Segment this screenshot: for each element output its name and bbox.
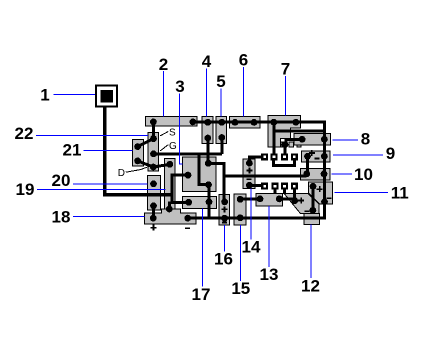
pads center block — [185, 160, 212, 188]
svg-text:13: 13 — [260, 265, 279, 284]
leader 3 — [179, 94, 182, 165]
cap14 plus mark — [247, 167, 253, 173]
pad12 plus mark — [298, 198, 304, 204]
pads strip item 19 — [166, 161, 173, 213]
trace bar13 to pad12 — [279, 197, 294, 200]
copper bar item 8 — [294, 134, 331, 145]
leader to G — [160, 145, 168, 151]
pads strip item 4 — [204, 119, 211, 142]
copper bar top rail (item 2) — [146, 116, 198, 126]
copper strip item 14 — [243, 159, 255, 188]
trace branch to block lower pad — [199, 154, 208, 185]
leader 16 — [223, 225, 225, 251]
svg-text:5: 5 — [216, 72, 225, 91]
pads bar item 10 — [303, 171, 327, 178]
leader 2 — [163, 71, 165, 116]
pads slanted pad item 11 — [310, 183, 328, 205]
svg-text:S: S — [169, 128, 176, 139]
svg-text:12: 12 — [301, 277, 320, 296]
pads top rail bar item 2 — [150, 119, 196, 126]
leader to D — [126, 167, 147, 172]
svg-text:11: 11 — [391, 183, 409, 202]
svg-text:20: 20 — [52, 171, 71, 190]
trace block to capacitor 16 — [208, 163, 224, 202]
copper tab b — [289, 142, 294, 147]
pads region item 7 — [270, 119, 299, 148]
svg-text:21: 21 — [63, 141, 82, 160]
trace strip5 down — [220, 138, 223, 155]
leader 21 — [84, 150, 133, 152]
leader 18 — [73, 215, 145, 217]
pads bar item 8 — [299, 136, 328, 143]
pads strip item 20 — [150, 180, 157, 209]
copper strip item 19 — [165, 159, 175, 211]
copper bar item 9 — [302, 151, 331, 162]
copper bar item 18 battery — [145, 209, 196, 224]
battery plus mark — [150, 225, 156, 231]
copper strip item 20 — [147, 175, 160, 210]
trace strip4 down to block — [206, 138, 209, 163]
smd square pads row 2 — [261, 183, 298, 190]
svg-text:3: 3 — [175, 77, 184, 96]
svg-text:G: G — [169, 141, 177, 152]
trace G bus horizontal — [154, 153, 222, 156]
copper strip item 4 — [202, 117, 213, 144]
pads capacitor item 14 — [246, 160, 253, 189]
svg-text:6: 6 — [239, 51, 248, 70]
svg-text:15: 15 — [231, 279, 250, 298]
trace sq6 down — [274, 186, 277, 194]
leader 14 — [250, 189, 252, 240]
leader 6 — [243, 67, 245, 117]
leader 17 — [201, 209, 203, 287]
svg-text:D: D — [118, 168, 125, 179]
leader 12 — [310, 225, 312, 279]
trace sq3 up — [283, 145, 286, 158]
cap9 minus mark — [314, 158, 319, 160]
copper tab c — [297, 142, 301, 147]
pads bar item 6 — [232, 119, 258, 126]
svg-text:19: 19 — [16, 180, 35, 199]
copper tab a — [281, 142, 283, 147]
trace sq8 down — [293, 186, 296, 200]
pads transistor S G D — [150, 135, 157, 170]
pads strip item 15 — [237, 196, 244, 221]
leader 19 — [37, 188, 166, 190]
pads strip item 5 — [218, 119, 225, 141]
copper region item 7 — [268, 116, 300, 147]
trace pad11 to pad12 minus — [312, 186, 315, 210]
trace top bar to S pad — [152, 122, 155, 139]
leader 20 — [73, 183, 147, 185]
trace diagonal to D pad — [138, 161, 154, 167]
cap16 plus mark — [222, 206, 228, 212]
pad11 minus mark — [327, 197, 332, 199]
copper bar item 13 — [256, 194, 282, 206]
pads slanted pad item 12 — [291, 197, 316, 213]
pads capacitor item 9 — [304, 153, 328, 160]
trace cap14 plus to sq1 — [249, 157, 261, 163]
test point square pad item 1 — [96, 86, 117, 107]
copper bar item 6 — [229, 117, 260, 128]
trace diagonal to S pad — [138, 139, 154, 147]
svg-text:4: 4 — [202, 52, 212, 71]
pads capacitor item 16 — [221, 199, 228, 222]
pads battery bar item 18 — [150, 215, 191, 222]
copper bar item 10 — [301, 168, 330, 180]
leader 1 — [53, 94, 95, 96]
trace sq7 down — [283, 186, 286, 194]
cap16 minus mark — [222, 222, 227, 224]
copper tab item 12 lead — [304, 214, 320, 225]
copper slanted pad item 12 — [284, 194, 319, 214]
copper strip item 16 — [219, 195, 230, 226]
blue callout leader lines — [36, 67, 388, 287]
leader 22 — [36, 134, 148, 136]
leader 4 — [206, 69, 208, 117]
svg-text:14: 14 — [242, 238, 261, 257]
svg-text:9: 9 — [386, 144, 395, 163]
leader 15 — [240, 225, 242, 281]
svg-text:1: 1 — [40, 86, 49, 105]
pad12 minus mark — [305, 210, 310, 212]
leader 5 — [220, 89, 222, 117]
leader 13 — [268, 206, 270, 267]
leader 9 — [333, 154, 383, 156]
trace mid horizontal bus — [224, 174, 306, 177]
leader to S — [160, 132, 168, 136]
svg-text:17: 17 — [192, 285, 211, 304]
trace strip15 to bar13 — [240, 198, 260, 201]
copper strip item 5 — [216, 117, 226, 144]
cap14 minus mark — [247, 178, 252, 180]
leader 11 — [334, 191, 388, 193]
trace top rail to right rail to bottom rail — [188, 122, 325, 218]
trace block lower pad down — [207, 185, 210, 219]
trace block left pad jog — [172, 175, 189, 202]
copper block center — [182, 157, 216, 192]
copper strip item 21 — [132, 140, 143, 167]
svg-text:7: 7 — [281, 60, 290, 79]
leader 7 — [285, 76, 287, 116]
copper slanted pad item 11 — [308, 182, 332, 204]
trace cap14 minus to sq5 — [249, 184, 261, 187]
trace bar8 pad to bar7 leg — [286, 139, 302, 144]
wire W1 from test point 1 — [105, 106, 171, 195]
battery minus mark — [185, 227, 190, 229]
leader 8 — [333, 139, 359, 141]
pads bar item 13 — [257, 196, 283, 203]
cap9 plus mark — [309, 150, 315, 156]
trace bar7 pad to sq2 — [272, 122, 275, 157]
pads strip item 21 — [134, 143, 141, 164]
svg-text:18: 18 — [52, 208, 71, 227]
pads bar item 17 — [185, 199, 212, 206]
smd square pads row 1 — [261, 153, 298, 160]
trace strip20 to battery plus — [152, 206, 155, 218]
copper strip item 15 — [234, 194, 246, 225]
trace bar7 to right rail — [274, 130, 325, 133]
trace bar9 to bar10 — [306, 156, 309, 174]
pad11 plus mark — [317, 186, 323, 192]
svg-text:16: 16 — [214, 250, 233, 269]
svg-text:10: 10 — [354, 165, 373, 184]
leader 10 — [332, 173, 352, 175]
trace stub strip19 pad — [168, 202, 171, 210]
svg-text:8: 8 — [361, 130, 370, 149]
trace U sq2 sq4 — [274, 158, 295, 166]
copper strip transistor S G D — [148, 132, 159, 171]
svg-text:22: 22 — [15, 124, 34, 143]
copper bar item 17 — [183, 196, 217, 208]
trace D pad to strip19 — [153, 164, 170, 167]
polarity marks — [150, 150, 331, 231]
